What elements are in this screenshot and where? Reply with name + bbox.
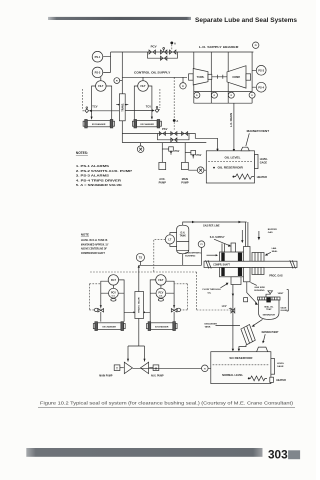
svg-text:MANWAY/VENT: MANWAY/VENT — [262, 331, 279, 334]
gauge PI on leg — [120, 80, 123, 82]
pump AUX lower (motor driven) — [141, 362, 149, 373]
valve bypass lower — [171, 138, 177, 142]
heater element — [233, 176, 235, 178]
svg-text:TRAP: TRAP — [266, 308, 272, 311]
filter FILT lower right — [156, 275, 166, 285]
wire drain header — [194, 102, 252, 104]
filter FILT lower left — [108, 275, 118, 285]
valve PSV row — [159, 132, 187, 136]
svg-text:MAINTAINED APPROX. 15′: MAINTAINED APPROX. 15′ — [81, 243, 109, 246]
svg-text:GAS SIDE: GAS SIDE — [254, 286, 265, 289]
svg-text:TRANS. VALVE: TRANS. VALVE — [138, 297, 141, 313]
level gage — [255, 154, 259, 168]
wire PSV bypass loop — [158, 134, 190, 140]
valve TCV left — [85, 109, 89, 113]
wire control oil supply line — [122, 76, 187, 78]
svg-text:PROC. GAS: PROC. GAS — [269, 275, 283, 278]
controller PCV lower right — [156, 288, 166, 298]
compressor shaft — [204, 261, 297, 267]
heat exchanger lower left — [98, 323, 121, 330]
oil reservoir — [206, 151, 254, 183]
svg-text:COMPRESSOR SHAFT: COMPRESSOR SHAFT — [81, 252, 106, 255]
svg-text:MAIN PUMP: MAIN PUMP — [99, 374, 113, 377]
svg-text:SEAL OIL: SEAL OIL — [264, 306, 274, 309]
gauge on line B — [140, 143, 142, 146]
svg-text:O.H.: O.H. — [180, 232, 185, 234]
manway/vent — [241, 147, 249, 151]
pump discharge header lower — [128, 346, 145, 362]
wire gas reference line — [183, 222, 247, 225]
seal oil reservoir — [211, 352, 271, 384]
svg-text:L.O. DRAIN: L.O. DRAIN — [229, 113, 233, 127]
level transmitter LT — [170, 233, 177, 247]
stub pipe above left ring — [222, 244, 225, 253]
wire PS bracket — [103, 52, 110, 72]
svg-text:GAS REF. LINE: GAS REF. LINE — [203, 223, 220, 227]
svg-text:BUSHING: BUSHING — [254, 290, 264, 292]
svg-text:GAS: GAS — [268, 231, 273, 234]
valve lower right — [171, 309, 177, 312]
svg-text:PS-1: PS-1 — [95, 55, 101, 59]
valve TCV right — [155, 109, 159, 113]
svg-text:Separate Lube and Seal Systems: Separate Lube and Seal Systems — [195, 17, 298, 24]
seal housing lower — [220, 268, 245, 277]
temperature indicator TI — [202, 365, 209, 372]
valve bypass — [161, 56, 167, 60]
seal housing upper — [220, 252, 245, 261]
svg-text:PCV: PCV — [158, 292, 163, 295]
svg-text:TRANS.: TRANS. — [122, 103, 125, 112]
pressure switch PS-4 — [256, 82, 266, 92]
valve LCV — [229, 308, 235, 313]
svg-text:PUMP: PUMP — [159, 181, 167, 184]
svg-text:O.S.: O.S. — [112, 295, 116, 297]
gas bushing block upper — [244, 247, 251, 262]
wire filter right ports — [122, 86, 152, 120]
svg-text:BUSHING: BUSHING — [185, 256, 195, 258]
wire pump risers — [162, 143, 185, 163]
svg-text:SEAL: SEAL — [272, 250, 278, 253]
svg-text:303: 303 — [268, 447, 288, 461]
wire degasser to reservoir — [239, 345, 246, 350]
heater element lower — [248, 377, 250, 379]
svg-text:OIL RESERVOIR: OIL RESERVOIR — [218, 166, 243, 170]
svg-text:DEGASSER: DEGASSER — [205, 322, 218, 325]
svg-text:PS-3: PS-3 — [258, 68, 264, 72]
pump MAIN lower (turbine driven) — [124, 362, 132, 373]
svg-text:LCV: LCV — [222, 305, 227, 308]
pressure switch PS-1 — [92, 51, 103, 62]
svg-text:MANWAY/VENT: MANWAY/VENT — [247, 129, 270, 133]
svg-text:S.O. SUPPLY: S.O. SUPPLY — [210, 236, 225, 239]
svg-text:L.O. SUPPLY HEADER: L.O. SUPPLY HEADER — [199, 45, 240, 49]
wire dashed lower-left control — [89, 284, 100, 310]
svg-text:NOTES:: NOTES: — [76, 151, 88, 155]
svg-text:Figure 10.2 Typical seal oil s: Figure 10.2 Typical seal oil system (for… — [40, 401, 293, 407]
riser A oil inlet block — [231, 243, 236, 253]
svg-text:2. PS-2 STARTS AUX. PUMP: 2. PS-2 STARTS AUX. PUMP — [76, 169, 132, 173]
svg-text:TANK: TANK — [205, 325, 211, 328]
svg-text:LEVEL: LEVEL — [277, 363, 285, 365]
wire dashed control to left TCV — [83, 89, 85, 111]
wire dashed control to right TCV — [158, 89, 160, 109]
svg-text:OIL LEVEL: OIL LEVEL — [225, 156, 241, 160]
seal rings black — [221, 253, 224, 262]
svg-text:4. PS-4 TRIPS DRIVER: 4. PS-4 TRIPS DRIVER — [76, 178, 122, 182]
svg-text:EXCHANGER: EXCHANGER — [141, 123, 155, 126]
wire lower-left inner riser — [118, 280, 134, 322]
degassing tank — [241, 325, 255, 345]
wire L.O. supply header y=52 — [111, 51, 254, 53]
svg-text:TCV: TCV — [92, 104, 97, 108]
svg-text:PS-4: PS-4 — [258, 85, 264, 89]
svg-text:CONTROL OIL SUPPLY: CONTROL OIL SUPPLY — [134, 70, 170, 74]
turbine TURB — [189, 74, 194, 80]
svg-text:GAGE: GAGE — [260, 162, 268, 165]
svg-text:TS: TS — [139, 257, 143, 260]
svg-text:COMP.: COMP. — [232, 76, 240, 79]
svg-text:BUFFER: BUFFER — [268, 229, 277, 231]
footer rule bar — [26, 448, 262, 457]
controller PCV lower left — [109, 288, 119, 298]
svg-text:EXCHANGER: EXCHANGER — [155, 325, 169, 328]
drain pot D circles — [194, 92, 200, 98]
pressure switch PS-2 — [92, 67, 103, 78]
heat exchanger left — [87, 121, 110, 127]
svg-text:LEVEL IN O.H. TANK IS: LEVEL IN O.H. TANK IS — [81, 239, 108, 242]
node A snubber lower — [173, 119, 176, 122]
svg-text:TCV: TCV — [146, 104, 151, 108]
svg-text:GAGE: GAGE — [277, 365, 284, 368]
valve PCV group on header — [149, 50, 176, 54]
gauge PI on control line — [182, 77, 184, 82]
svg-text:FILT: FILT — [98, 85, 104, 88]
caption underline rule — [38, 406, 295, 408]
wire lower-left port bracket — [101, 281, 109, 308]
wire dashed LT control loop — [90, 239, 231, 310]
heat exchanger lower right — [151, 323, 173, 330]
header rule bar — [48, 17, 191, 20]
gauge PI header end — [253, 42, 259, 48]
svg-text:1. PS-1 ALARMS: 1. PS-1 ALARMS — [76, 164, 109, 168]
svg-text:TURB.: TURB. — [197, 76, 205, 79]
svg-text:PSV: PSV — [175, 150, 180, 153]
supply arrow into housing — [241, 230, 243, 241]
manway/vent lower — [257, 347, 268, 352]
pump AUX — [159, 162, 166, 169]
svg-text:COMPR. SHAFT: COMPR. SHAFT — [213, 264, 230, 267]
svg-text:5. A = SNUBBER VALVE: 5. A = SNUBBER VALVE — [76, 183, 122, 187]
float trap — [258, 297, 281, 300]
relief valve PSV aux pump — [162, 148, 168, 150]
relief valve PSV main pump — [185, 152, 191, 154]
svg-text:ATMOSPHERIC: ATMOSPHERIC — [185, 252, 201, 255]
wire riser to seal with PI — [201, 247, 203, 265]
svg-text:SO RESERVOIR: SO RESERVOIR — [229, 356, 252, 360]
svg-text:HEATER: HEATER — [257, 176, 267, 179]
svg-text:T: T — [116, 366, 118, 370]
wire filter left ports — [92, 86, 123, 120]
gas bushing block lower — [244, 268, 251, 282]
wire seal oil supply line — [139, 265, 202, 346]
svg-text:TANK: TANK — [180, 235, 187, 238]
wire tank bottom to supply — [182, 254, 184, 265]
temperature transmitter TRANS — [119, 94, 125, 121]
transfer valve TRANS. VALVE — [135, 292, 144, 319]
wire lower-right inner riser — [144, 280, 156, 322]
heat exchanger right — [137, 121, 158, 127]
svg-text:GAGE: GAGE — [281, 306, 288, 309]
pressure switch PS-3 — [252, 70, 256, 87]
footer corner square — [288, 450, 300, 459]
svg-text:FILT: FILT — [158, 279, 164, 282]
wire seal oil drain with LCV — [232, 285, 234, 350]
wire pump discharge header line B — [122, 142, 206, 144]
wire dashed from control line to A — [173, 77, 175, 129]
pump MAIN — [182, 162, 189, 169]
svg-text:O.S.: O.S. — [159, 295, 163, 297]
svg-text:PSV: PSV — [197, 154, 202, 157]
svg-text:GLASS: GLASS — [281, 309, 289, 312]
wire bearing drain line — [194, 91, 252, 93]
filter FILT right — [138, 81, 149, 92]
wire L.O. drain to reservoir — [233, 103, 235, 150]
bottom center block — [231, 277, 241, 285]
svg-text:PS-2: PS-2 — [95, 71, 101, 75]
wire main supply leg — [121, 52, 123, 143]
svg-text:LAB.: LAB. — [272, 247, 277, 250]
svg-text:FILT: FILT — [140, 85, 146, 88]
svg-text:VENT: VENT — [278, 293, 284, 295]
labyrinth block — [252, 253, 264, 262]
svg-text:EXCHANGER: EXCHANGER — [103, 325, 117, 328]
svg-text:PSV: PSV — [162, 127, 168, 131]
wire machine feed/drain drops — [194, 52, 252, 103]
svg-text:AUX. PUMP: AUX. PUMP — [151, 374, 164, 377]
overhead tank O.H. TANK — [177, 225, 189, 254]
wire PCV bypass loop — [148, 52, 178, 58]
compressor COMP — [227, 66, 246, 88]
wire pump suction lower — [133, 367, 211, 369]
svg-text:PCV: PCV — [111, 292, 116, 295]
gas ref pipe down into bushing block — [246, 222, 248, 247]
svg-text:HEATER: HEATER — [276, 379, 286, 382]
svg-text:NORMAL LEVEL: NORMAL LEVEL — [222, 374, 244, 377]
node A snubber — [170, 42, 173, 45]
svg-text:FLOW THROUGH: FLOW THROUGH — [203, 289, 222, 291]
svg-text:A: A — [174, 41, 176, 45]
coupling — [208, 74, 212, 79]
svg-text:PCV: PCV — [151, 45, 157, 49]
svg-text:SEPARATOR: SEPARATOR — [263, 313, 276, 316]
svg-text:NOTE: NOTE — [81, 233, 89, 237]
svg-text:EXCHANGER: EXCHANGER — [92, 123, 106, 126]
buffer gas line — [258, 231, 260, 238]
wire sloped drain to trap — [247, 282, 257, 304]
level gage lower — [271, 359, 275, 375]
filter FILT left — [96, 81, 107, 92]
svg-text:ABOVE CENTERLINE OF: ABOVE CENTERLINE OF — [81, 248, 108, 251]
vent funnel — [266, 293, 270, 297]
wire pump suction from reservoir — [188, 169, 213, 171]
temperature switch TS — [136, 253, 144, 261]
svg-text:FILT: FILT — [111, 279, 117, 282]
svg-text:PUMP: PUMP — [181, 181, 189, 184]
svg-text:LT: LT — [168, 238, 171, 242]
svg-text:A: A — [176, 119, 178, 123]
wire return line A with PSV group — [122, 134, 217, 150]
valve lower left — [98, 309, 104, 312]
svg-text:3. PS-3 ALARMS: 3. PS-3 ALARMS — [76, 174, 109, 178]
wire trap to degasser — [253, 319, 263, 326]
wire lower-right port bracket — [166, 281, 174, 308]
wire dashed lower-right control — [175, 284, 188, 310]
